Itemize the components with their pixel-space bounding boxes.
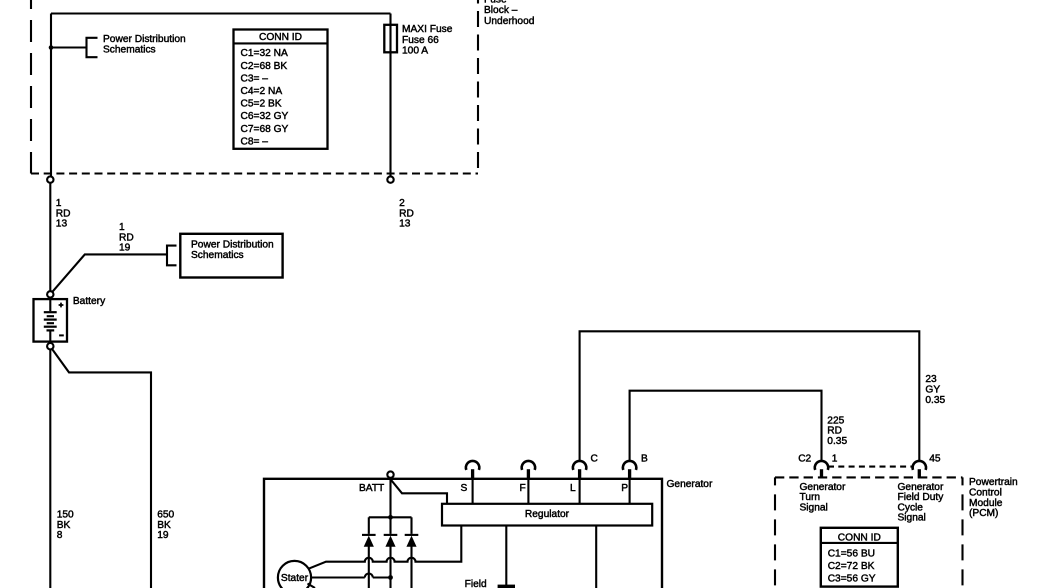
wire L circuit to PCM 45: [580, 331, 920, 460]
diode 2 arrow: [386, 537, 395, 547]
svg-text:C: C: [591, 454, 598, 465]
svg-text:CONN ID: CONN ID: [838, 532, 881, 543]
svg-text:C2=72 BK: C2=72 BK: [828, 561, 875, 572]
diode 3 arrow: [407, 537, 416, 547]
fuse block underhood dashed box bottom edge: [31, 172, 478, 174]
wire stator phase 3 stub: [308, 584, 316, 588]
node stator phase 2 junction: [388, 575, 393, 580]
battery minus sign: [59, 334, 64, 336]
svg-text:8: 8: [57, 530, 63, 541]
svg-text:B: B: [641, 454, 648, 465]
battery plate short 2: [47, 322, 54, 324]
svg-text:Regulator: Regulator: [525, 509, 570, 520]
svg-text:C8= –: C8= –: [241, 136, 269, 147]
svg-text:BATT: BATT: [359, 483, 384, 494]
terminal F stub: [527, 469, 530, 479]
battery plate short 1: [47, 315, 54, 317]
svg-text:Power Distribution: Power Distribution: [191, 240, 274, 251]
terminal S arc: [466, 461, 479, 470]
wire through fuse: [389, 14, 391, 177]
stator phase 2 hop over diode 1: [365, 574, 373, 578]
PCM dashed box top edge: [775, 476, 963, 478]
wire BATT lead into regulator: [391, 478, 448, 504]
svg-text:45: 45: [929, 454, 941, 465]
wire P circuit 225 RD to PCM 1: [630, 391, 822, 461]
svg-text:RD: RD: [119, 232, 134, 243]
svg-text:MAXI Fuse: MAXI Fuse: [402, 24, 453, 35]
terminal F arc: [522, 461, 535, 470]
svg-text:C2: C2: [798, 454, 811, 465]
wire stator phase 2: [311, 576, 390, 578]
battery plate short 3: [47, 329, 55, 331]
svg-text:CONN ID: CONN ID: [259, 32, 302, 43]
stator winding circle: [278, 561, 311, 588]
svg-text:Battery: Battery: [73, 296, 106, 307]
diode 1 cathode lead: [368, 517, 370, 534]
terminal S lead to regulator: [472, 479, 474, 504]
svg-text:P: P: [621, 483, 628, 494]
diode rectifier bus: [369, 516, 412, 518]
PCM dashed box left edge: [774, 477, 776, 588]
svg-text:Signal: Signal: [898, 513, 926, 524]
node junction top-left: [49, 45, 54, 50]
svg-text:19: 19: [157, 530, 169, 541]
conn id table title separator: [234, 42, 328, 44]
svg-text:RD: RD: [827, 426, 842, 437]
terminal P arc: [623, 461, 636, 470]
svg-text:Fuse 66: Fuse 66: [402, 35, 439, 46]
MAXI fuse Fuse 66 symbol: [384, 25, 397, 53]
svg-text:C2=68 BK: C2=68 BK: [241, 61, 288, 72]
svg-text:13: 13: [399, 219, 411, 230]
svg-text:C1=56 BU: C1=56 BU: [828, 548, 875, 559]
svg-text:0.35: 0.35: [925, 395, 945, 406]
terminal P stub: [628, 469, 631, 479]
PCM dashed box right edge: [961, 477, 963, 588]
fuse block underhood dashed box left edge: [30, 0, 32, 174]
bracket power distribution schematics (top): [87, 38, 98, 57]
svg-text:19: 19: [119, 243, 131, 254]
PCM terminal 1 stub: [820, 469, 823, 478]
wire circuit 1 RD down to battery: [49, 183, 51, 291]
terminal L arc: [573, 461, 586, 470]
diode 1 arrow: [365, 537, 374, 547]
diode 3 cathode lead: [410, 517, 412, 534]
wire regulator to stator sense: [309, 525, 462, 569]
diode 1 cathode bar: [362, 534, 376, 536]
svg-text:GY: GY: [925, 384, 940, 395]
fuse block underhood dashed box right edge: [477, 0, 479, 174]
terminal F lead to regulator: [527, 479, 529, 504]
generator box outline: [264, 479, 662, 588]
svg-text:S: S: [461, 483, 468, 494]
wire branch 1 RD 19 diagonal to power distribution: [52, 254, 168, 292]
wire regulator to field coil: [505, 525, 507, 585]
svg-text:C1=32 NA: C1=32 NA: [241, 48, 288, 59]
svg-text:Stater: Stater: [281, 573, 309, 584]
svg-text:(PCM): (PCM): [969, 508, 998, 519]
diode 2 anode lead: [389, 545, 391, 588]
battery plus sign: [59, 303, 64, 308]
battery plate long 3: [44, 326, 57, 328]
svg-text:225: 225: [827, 415, 844, 426]
connector circle 2 (right, at fuse block edge): [387, 176, 393, 182]
svg-text:F: F: [520, 483, 526, 494]
battery internal bottom lead: [49, 330, 51, 342]
conn id table (PCM) title separator: [821, 542, 898, 544]
battery plate long 2: [44, 319, 57, 321]
terminal L stub: [578, 469, 581, 479]
wire left vertical drop: [50, 14, 52, 177]
svg-text:Field: Field: [465, 579, 487, 588]
conn id table (PCM) border: [821, 528, 898, 587]
svg-text:C3=56 GY: C3=56 GY: [828, 573, 876, 584]
svg-text:Schematics: Schematics: [103, 44, 156, 55]
PCM terminal 1 arc: [815, 461, 828, 470]
svg-text:L: L: [570, 483, 576, 494]
PCM connector dashed link: [828, 466, 914, 468]
battery connector circle top: [47, 291, 53, 297]
connector circle 1 (left, at fuse block edge): [47, 176, 53, 182]
terminal L lead to regulator: [579, 479, 581, 504]
svg-text:Power Distribution: Power Distribution: [103, 34, 186, 45]
PCM terminal 45 stub: [918, 469, 921, 478]
node diode bus junction: [388, 515, 393, 520]
svg-text:23: 23: [925, 374, 937, 385]
diode 2 cathode bar: [384, 534, 398, 536]
svg-text:0.35: 0.35: [827, 436, 847, 447]
diode 3 cathode bar: [405, 534, 419, 536]
wire BATT bus down to diodes: [389, 478, 391, 534]
svg-text:Schematics: Schematics: [191, 250, 244, 261]
svg-text:Generator: Generator: [667, 479, 713, 490]
svg-text:13: 13: [56, 219, 68, 230]
svg-text:Block –: Block –: [484, 5, 518, 16]
terminal P lead to regulator: [629, 479, 631, 504]
field coil: [498, 585, 515, 588]
svg-text:C4=2 NA: C4=2 NA: [241, 86, 283, 97]
battery plate long 1: [44, 311, 57, 313]
svg-text:C7=68 GY: C7=68 GY: [241, 124, 289, 135]
svg-text:100 A: 100 A: [402, 45, 428, 56]
PCM terminal 45 arc: [913, 461, 926, 470]
wire top horizontal feed: [51, 12, 391, 14]
battery connector circle bottom: [47, 343, 53, 349]
conn id table (fuse block) border: [234, 30, 328, 149]
wire 650 BK branch: [52, 349, 151, 588]
svg-text:C5=2 BK: C5=2 BK: [241, 99, 282, 110]
power distribution schematics box: [180, 234, 282, 278]
svg-text:1: 1: [119, 222, 125, 233]
svg-text:Underhood: Underhood: [484, 16, 535, 27]
regulator box: [442, 504, 652, 526]
bracket power distribution schematics (mid): [167, 246, 177, 266]
svg-text:C3= –: C3= –: [241, 73, 269, 84]
battery box B+: [34, 299, 68, 342]
terminal S stub: [471, 469, 474, 479]
svg-text:C6=32 GY: C6=32 GY: [241, 111, 289, 122]
diode 1 anode lead: [368, 545, 370, 588]
wire 150 BK ground drop: [49, 349, 51, 588]
svg-text:1: 1: [832, 454, 838, 465]
wire regulator field return: [595, 525, 597, 588]
connector circle BATT terminal: [387, 471, 393, 477]
wire stub to power distribution bracket: [51, 46, 87, 48]
diode 3 anode lead: [410, 545, 412, 588]
svg-text:Signal: Signal: [800, 502, 828, 513]
battery internal top lead: [49, 298, 51, 312]
